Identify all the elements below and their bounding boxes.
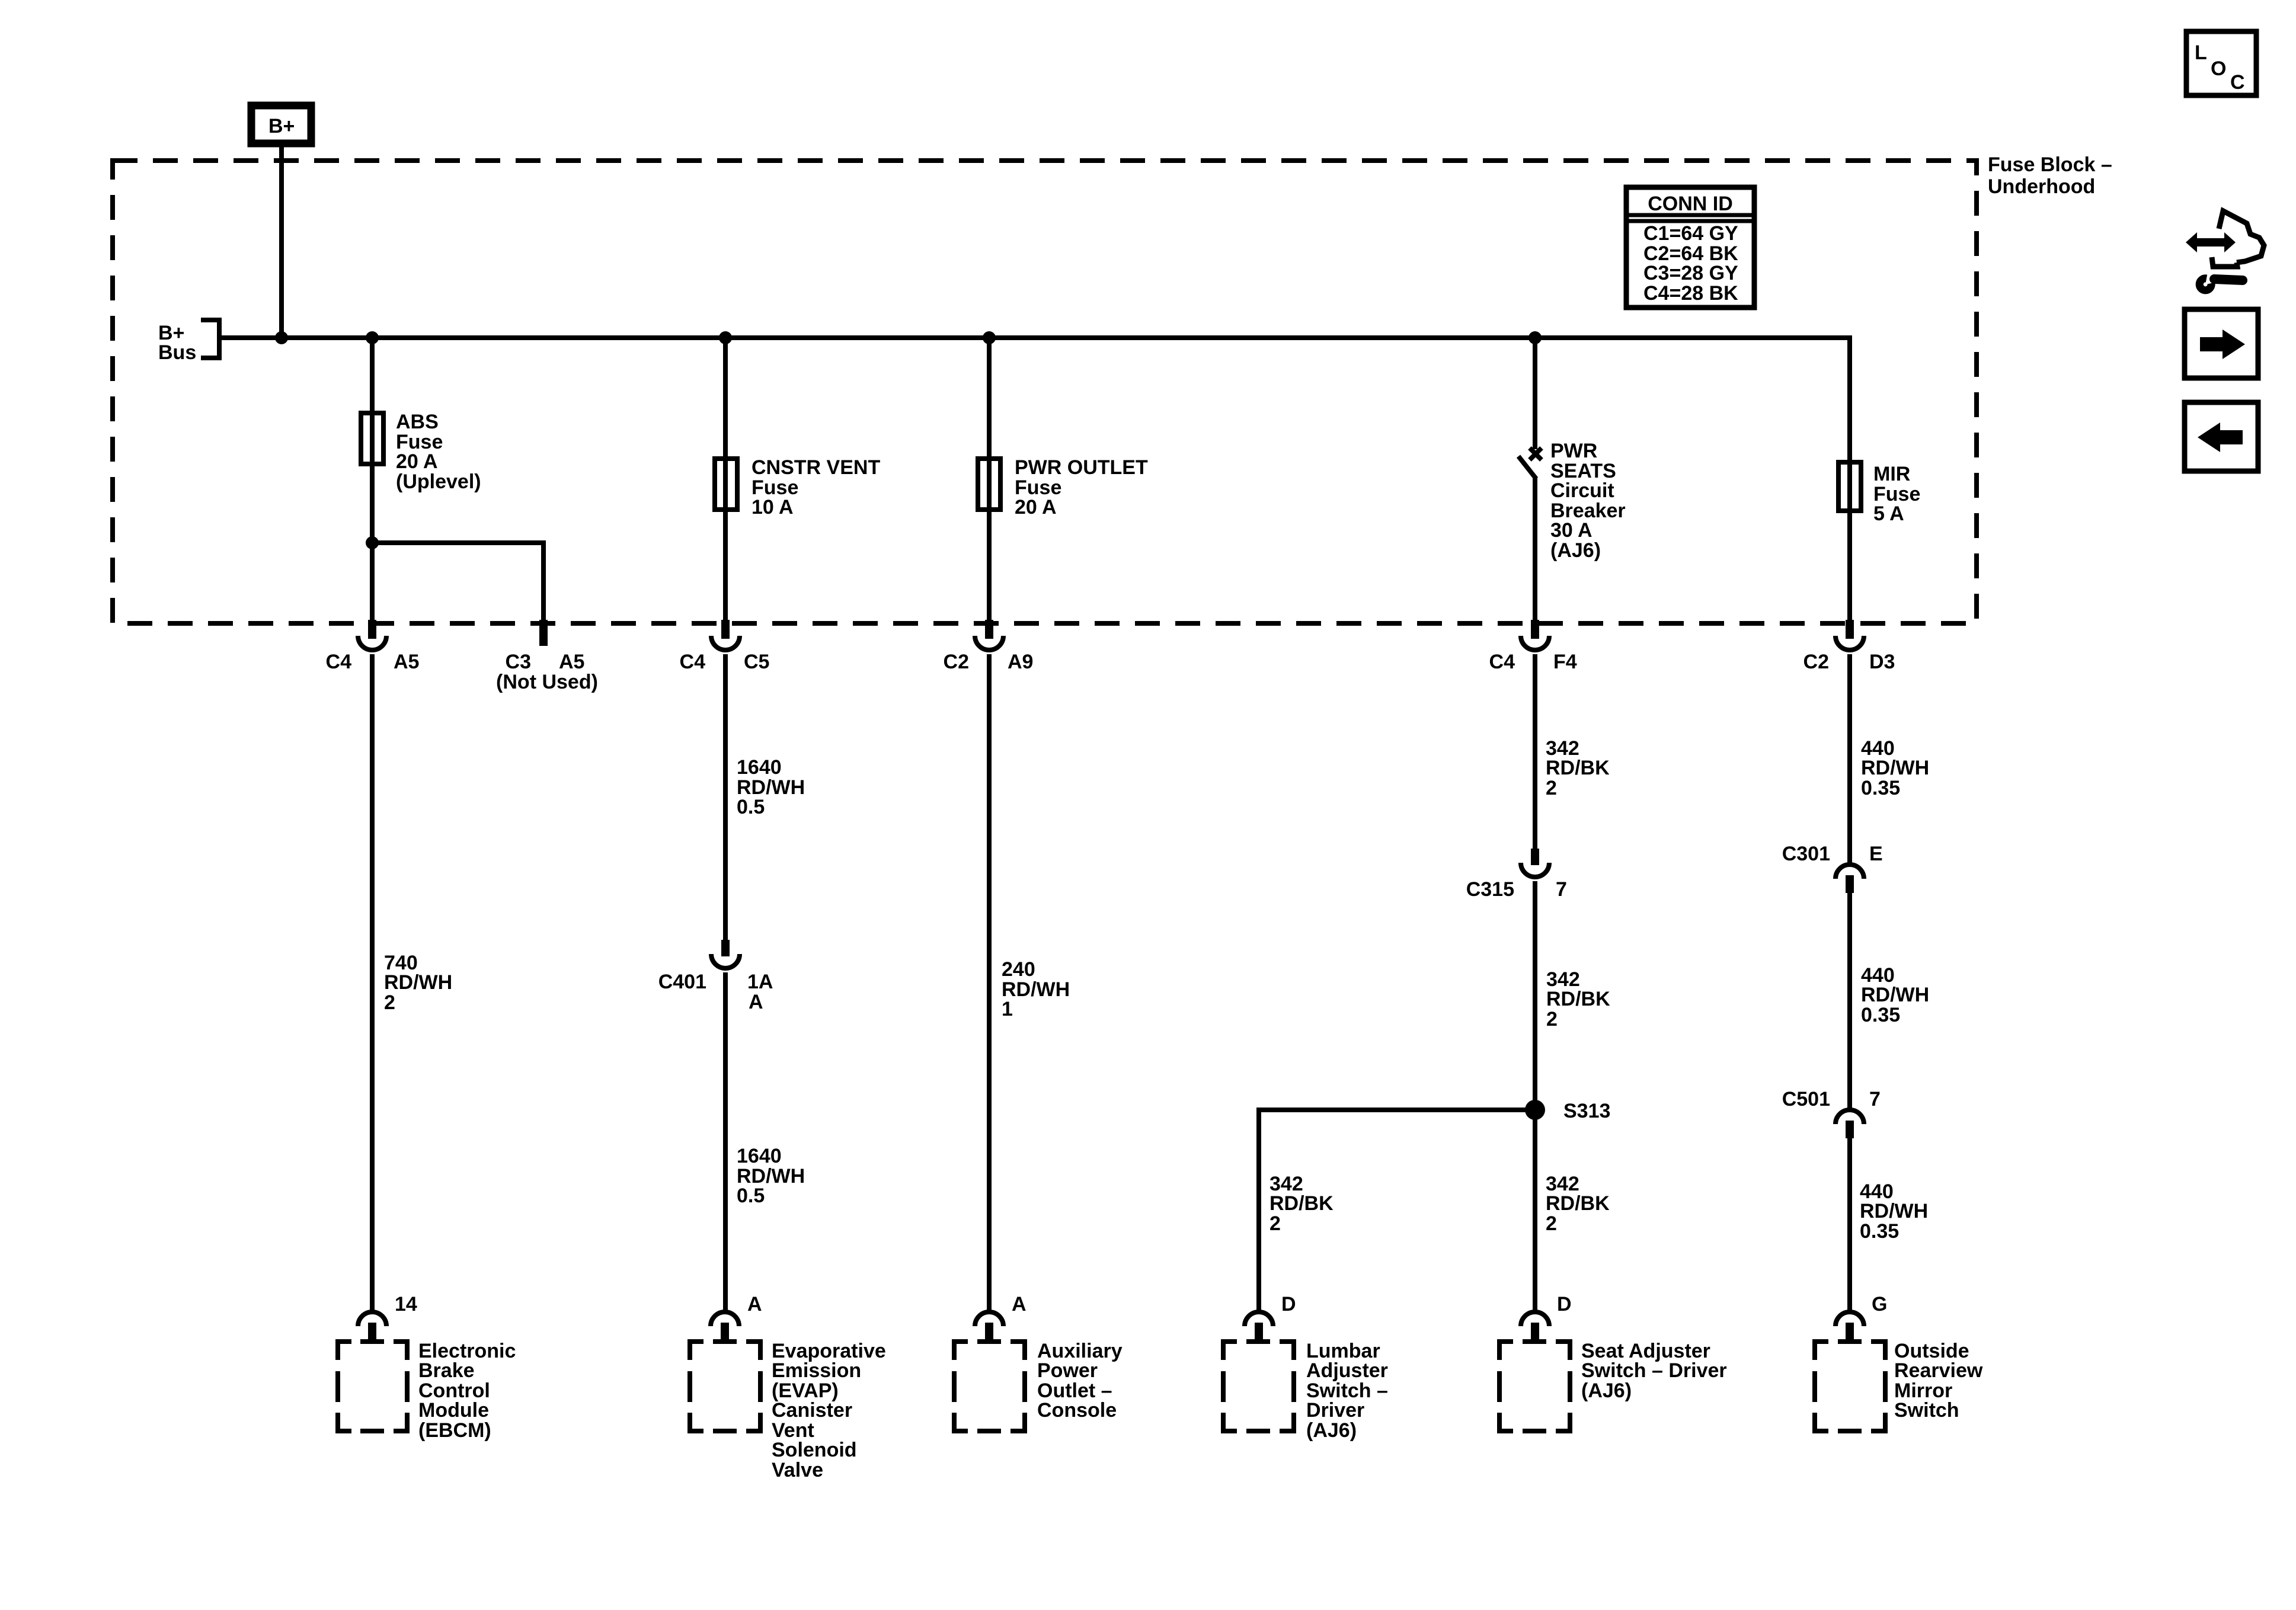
connector lumbar pin xyxy=(1245,1312,1273,1342)
label Mirror Switch xyxy=(1894,1340,1983,1422)
svg-text:O: O xyxy=(2211,57,2226,80)
svg-text:PWR: PWR xyxy=(1550,440,1597,462)
node bus/CNSTR xyxy=(719,331,732,344)
wire S313 to seat switch xyxy=(1533,1110,1537,1311)
wire F4 to C315 xyxy=(1533,654,1537,850)
connector C4/C5 xyxy=(711,620,740,650)
wire ABS branch upper xyxy=(370,338,375,620)
label C4 C5 xyxy=(680,651,770,673)
svg-text:A: A xyxy=(747,1293,762,1315)
fuse ABS 20A xyxy=(361,413,383,464)
svg-text:2: 2 xyxy=(1546,1008,1558,1030)
svg-text:2: 2 xyxy=(1546,1212,1557,1235)
label CNSTR VENT fuse xyxy=(752,456,880,518)
svg-text:CONN ID: CONN ID xyxy=(1648,193,1733,215)
svg-text:Driver: Driver xyxy=(1306,1399,1364,1422)
icon service vehicle xyxy=(2186,211,2264,290)
connector C315 xyxy=(1521,849,1549,877)
svg-text:A9: A9 xyxy=(1008,651,1033,673)
svg-text:C501: C501 xyxy=(1782,1088,1830,1110)
fuse block underhood dashed border xyxy=(113,161,1977,623)
svg-text:F4: F4 xyxy=(1553,651,1577,673)
component Lumbar Adjuster Switch dashed box xyxy=(1223,1342,1294,1431)
svg-text:(AJ6): (AJ6) xyxy=(1306,1419,1357,1442)
svg-text:Console: Console xyxy=(1037,1399,1117,1422)
node bus/B+ xyxy=(275,331,288,344)
svg-text:A5: A5 xyxy=(394,651,419,673)
svg-text:Fuse Block –: Fuse Block – xyxy=(1988,153,2112,176)
svg-text:D: D xyxy=(1281,1293,1296,1315)
label EBCM xyxy=(418,1340,516,1442)
connector C2/A9 xyxy=(975,620,1003,650)
wire PWR SEATS branch upper xyxy=(1533,338,1537,449)
svg-text:RD/WH: RD/WH xyxy=(1861,984,1929,1006)
svg-text:Power: Power xyxy=(1037,1359,1098,1382)
label C315 7 xyxy=(1466,878,1567,901)
svg-text:5 A: 5 A xyxy=(1873,502,1904,525)
connector C3 pin (not used) xyxy=(539,620,548,646)
svg-text:RD/WH: RD/WH xyxy=(1861,757,1929,779)
svg-text:Solenoid: Solenoid xyxy=(772,1439,857,1461)
svg-text:RD/BK: RD/BK xyxy=(1546,1192,1610,1215)
fuse CNSTR VENT 10A xyxy=(715,459,737,510)
label EVAP xyxy=(772,1340,886,1481)
svg-text:RD/WH: RD/WH xyxy=(384,971,452,994)
svg-text:1640: 1640 xyxy=(737,1145,782,1167)
svg-text:C4: C4 xyxy=(326,651,352,673)
svg-text:RD/WH: RD/WH xyxy=(1860,1200,1928,1222)
svg-text:C: C xyxy=(2230,71,2245,94)
svg-text:RD/BK: RD/BK xyxy=(1269,1192,1334,1215)
connector C2/D3 xyxy=(1835,620,1864,650)
svg-text:Brake: Brake xyxy=(418,1359,475,1382)
label Seat Adjuster Switch xyxy=(1581,1340,1727,1402)
label C2 D3 xyxy=(1803,651,1895,673)
connector C401 xyxy=(711,940,740,968)
svg-text:E: E xyxy=(1869,843,1883,865)
svg-text:C3: C3 xyxy=(506,651,531,673)
svg-text:C2: C2 xyxy=(944,651,969,673)
svg-text:20 A: 20 A xyxy=(1015,496,1057,518)
svg-text:MIR: MIR xyxy=(1873,463,1910,485)
label PWR SEATS breaker xyxy=(1550,440,1626,562)
label C4 A5 xyxy=(326,651,420,673)
label 342 RD/BK 2 top xyxy=(1546,737,1610,799)
svg-text:10 A: 10 A xyxy=(752,496,794,518)
svg-text:Valve: Valve xyxy=(772,1459,823,1481)
connector C4/A5 xyxy=(358,620,386,650)
label 1640 RD/WH 0.5 xyxy=(737,756,805,818)
splice S313 xyxy=(1525,1100,1545,1120)
connector EBCM pin xyxy=(358,1312,386,1342)
node bus/PWR SEATS xyxy=(1528,331,1542,344)
component Seat Adjuster Switch dashed box xyxy=(1499,1342,1570,1431)
svg-text:7: 7 xyxy=(1556,878,1567,901)
svg-text:Bus: Bus xyxy=(158,341,196,364)
svg-text:(AJ6): (AJ6) xyxy=(1550,539,1601,562)
wire PWR OUTLET to outlet xyxy=(987,654,992,1311)
svg-text:C301: C301 xyxy=(1782,843,1830,865)
svg-text:2: 2 xyxy=(1269,1212,1281,1235)
svg-text:A5: A5 xyxy=(559,651,584,673)
connector seat switch pin xyxy=(1521,1312,1549,1342)
label ABS fuse xyxy=(396,411,481,493)
node bus/ABS xyxy=(366,331,379,344)
svg-text:Rearview: Rearview xyxy=(1894,1359,1983,1382)
svg-text:7: 7 xyxy=(1869,1088,1881,1110)
svg-text:C4: C4 xyxy=(680,651,706,673)
label 440 RD/WH 0.35 top xyxy=(1861,737,1929,799)
label 740 RD/WH 2 xyxy=(384,952,452,1014)
connector C501 xyxy=(1835,1110,1864,1138)
wire C501 to mirror switch xyxy=(1847,1138,1852,1311)
svg-text:(Not Used): (Not Used) xyxy=(496,671,598,693)
svg-text:2: 2 xyxy=(1546,777,1557,799)
wire C315 to S313 xyxy=(1533,881,1537,1110)
svg-text:0.35: 0.35 xyxy=(1861,777,1900,799)
svg-text:Adjuster: Adjuster xyxy=(1306,1359,1388,1382)
svg-text:Switch – Driver: Switch – Driver xyxy=(1581,1359,1727,1382)
svg-text:C4=28 BK: C4=28 BK xyxy=(1643,282,1738,305)
svg-text:RD/BK: RD/BK xyxy=(1546,757,1610,779)
LOC reference box xyxy=(2186,31,2256,95)
svg-text:D: D xyxy=(1557,1293,1572,1315)
svg-text:CNSTR VENT: CNSTR VENT xyxy=(752,456,880,479)
label 440 RD/WH 0.35 mid xyxy=(1861,964,1929,1026)
svg-text:C401: C401 xyxy=(658,971,706,993)
label PWR OUTLET fuse xyxy=(1015,456,1148,518)
wire PWR OUTLET branch upper xyxy=(987,338,992,620)
label 1640 RD/WH 0.5 lower xyxy=(737,1145,805,1207)
component EBCM dashed box xyxy=(338,1342,407,1431)
label 440 RD/WH 0.35 lower xyxy=(1860,1180,1928,1243)
svg-text:1640: 1640 xyxy=(737,756,782,779)
svg-text:Canister: Canister xyxy=(772,1399,852,1422)
svg-text:C4: C4 xyxy=(1489,651,1515,673)
svg-text:C315: C315 xyxy=(1466,878,1514,901)
connector outlet pin xyxy=(975,1312,1003,1342)
connector C4/F4 xyxy=(1521,620,1549,650)
svg-text:1A: 1A xyxy=(747,971,773,993)
label C301 E xyxy=(1782,843,1883,865)
wire CNSTR to C401 xyxy=(723,654,728,941)
svg-text:C2: C2 xyxy=(1803,651,1829,673)
label MIR fuse xyxy=(1873,463,1920,525)
svg-text:B+: B+ xyxy=(268,115,295,137)
svg-text:30 A: 30 A xyxy=(1550,519,1593,542)
svg-text:L: L xyxy=(2195,41,2207,64)
icon arrow left box xyxy=(2185,402,2258,471)
fuse PWR OUTLET 20A xyxy=(978,459,1000,510)
svg-text:Module: Module xyxy=(418,1399,489,1422)
svg-text:Underhood: Underhood xyxy=(1988,175,2095,198)
wire S313 to lumbar xyxy=(1259,1110,1535,1311)
label C401 1A A xyxy=(658,971,773,1013)
svg-text:PWR OUTLET: PWR OUTLET xyxy=(1015,456,1148,479)
svg-text:(AJ6): (AJ6) xyxy=(1581,1379,1632,1402)
icon arrow right box xyxy=(2185,309,2258,378)
wire B+ bus xyxy=(219,338,1850,620)
svg-text:20 A: 20 A xyxy=(396,450,438,473)
label C3 A5 (Not Used) xyxy=(496,651,598,693)
svg-text:Emission: Emission xyxy=(772,1359,861,1382)
svg-text:0.35: 0.35 xyxy=(1860,1220,1899,1243)
wire D3 to C301 xyxy=(1847,654,1852,863)
power symbol B+ xyxy=(251,105,311,143)
label B+ Bus xyxy=(158,322,196,364)
wire B+ feed drop xyxy=(279,147,284,338)
label 342 RD/BK 2 mid xyxy=(1546,968,1610,1030)
connector mirror pin xyxy=(1835,1312,1864,1342)
svg-text:G: G xyxy=(1872,1293,1887,1315)
svg-text:2: 2 xyxy=(384,991,395,1014)
svg-text:C1=64 GY: C1=64 GY xyxy=(1643,222,1738,245)
svg-text:240: 240 xyxy=(1002,958,1035,981)
svg-text:Circuit: Circuit xyxy=(1550,479,1614,502)
svg-text:14: 14 xyxy=(395,1293,417,1315)
wire C401 to EVAP xyxy=(723,972,728,1311)
svg-text:A: A xyxy=(749,991,763,1013)
svg-text:A: A xyxy=(1012,1293,1027,1315)
wire C3 stub xyxy=(372,543,543,620)
wire CNSTR branch upper xyxy=(723,338,728,620)
svg-text:0.35: 0.35 xyxy=(1861,1004,1900,1026)
node bus/PWR OUTLET xyxy=(983,331,996,344)
wire C301 to C501 xyxy=(1847,893,1852,1108)
connector EVAP pin xyxy=(711,1312,739,1342)
svg-text:C5: C5 xyxy=(744,651,769,673)
svg-text:(Uplevel): (Uplevel) xyxy=(396,470,481,493)
circuit breaker PWR SEATS xyxy=(1518,448,1542,620)
label C501 7 xyxy=(1782,1088,1881,1110)
component EVAP dashed box xyxy=(690,1342,760,1431)
svg-text:D3: D3 xyxy=(1869,651,1895,673)
svg-text:RD/BK: RD/BK xyxy=(1546,988,1610,1010)
component Aux Power Outlet dashed box xyxy=(954,1342,1025,1431)
label Lumbar Adjuster Switch xyxy=(1306,1340,1388,1442)
svg-text:ABS: ABS xyxy=(396,411,439,433)
fuse MIR 5A xyxy=(1838,462,1861,511)
wire ABS to EBCM xyxy=(370,654,375,1311)
label Fuse Block - Underhood xyxy=(1988,153,2112,198)
svg-text:1: 1 xyxy=(1002,998,1013,1020)
svg-text:S313: S313 xyxy=(1563,1100,1610,1122)
bus bracket xyxy=(201,320,219,358)
label C2 A9 xyxy=(944,651,1034,673)
svg-text:0.5: 0.5 xyxy=(737,1185,765,1207)
svg-text:0.5: 0.5 xyxy=(737,796,765,818)
CONN ID table xyxy=(1626,187,1754,308)
svg-text:Switch: Switch xyxy=(1894,1399,1959,1422)
label 240 RD/WH 1 xyxy=(1002,958,1070,1020)
svg-text:C3=28 GY: C3=28 GY xyxy=(1643,262,1738,284)
label C4 F4 xyxy=(1489,651,1577,673)
label Aux Power Outlet xyxy=(1037,1340,1123,1422)
node ABS/C3 tap xyxy=(366,536,379,549)
label 342 RD/BK 2 lumbar xyxy=(1269,1173,1334,1235)
label 342 RD/BK 2 seat xyxy=(1546,1173,1610,1235)
component Mirror Switch dashed box xyxy=(1815,1342,1885,1431)
connector C301 xyxy=(1835,865,1864,893)
svg-text:(EBCM): (EBCM) xyxy=(418,1419,491,1442)
